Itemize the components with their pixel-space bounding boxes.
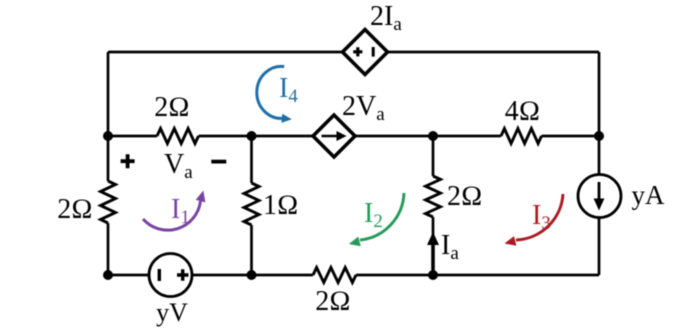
svg-text:Va: Va xyxy=(164,149,193,183)
wire top net from left corner to right corner xyxy=(108,51,599,54)
wire left vertical lower segment xyxy=(107,223,110,275)
svg-text:2Ω: 2Ω xyxy=(57,194,93,225)
wire right vertical upper segment xyxy=(598,52,601,174)
svg-text:Ia: Ia xyxy=(441,230,459,264)
mesh current I1 arc xyxy=(143,201,201,230)
current Ia arrow on wire xyxy=(431,245,435,270)
node C junction 2ohm-mid top xyxy=(428,131,438,141)
wire bottom net left segment xyxy=(108,274,313,277)
svg-text:2Ia: 2Ia xyxy=(370,1,402,35)
current source yA circle xyxy=(578,175,621,218)
wire bottom net right segment xyxy=(356,274,599,277)
svg-text:I1: I1 xyxy=(171,194,190,228)
wire 1ohm branch lower xyxy=(250,225,253,275)
resistor 2ohm left vertical xyxy=(101,181,116,223)
svg-text:4Ω: 4Ω xyxy=(505,96,541,127)
node D junction right-mid xyxy=(594,131,604,141)
wire middle horizontal segment to 4ohm xyxy=(199,135,502,138)
svg-text:yV: yV xyxy=(156,298,188,327)
wire 2ohm middle branch upper xyxy=(432,136,435,176)
voltage source yV plus xyxy=(177,269,189,280)
node F junction 1ohm bottom xyxy=(247,270,257,280)
wire middle horizontal net xyxy=(108,135,157,138)
svg-text:yA: yA xyxy=(632,180,666,210)
dependent source 2Va arrow xyxy=(322,135,339,138)
resistor 2ohm top-left horizontal xyxy=(157,129,199,144)
wire 2ohm middle branch lower xyxy=(432,217,435,275)
wire 1ohm branch upper xyxy=(250,136,253,183)
mesh current I4 arc xyxy=(257,66,284,118)
voltage source yV minus bar xyxy=(158,269,161,281)
dependent source 2Ia minus bar xyxy=(372,47,375,57)
svg-text:I2: I2 xyxy=(364,198,383,232)
wire right vertical lower segment xyxy=(598,218,601,275)
node G junction Ia bottom xyxy=(428,270,438,280)
label minus of Va xyxy=(211,160,226,164)
svg-text:2Ω: 2Ω xyxy=(154,92,190,123)
svg-text:1Ω: 1Ω xyxy=(263,190,299,221)
mesh current I3 arc xyxy=(516,194,563,240)
svg-text:2Ω: 2Ω xyxy=(447,181,483,212)
resistor 1ohm xyxy=(244,183,259,225)
node A junction left-mid xyxy=(103,131,113,141)
node E junction left-bottom xyxy=(103,270,113,280)
svg-text:I3: I3 xyxy=(532,200,551,234)
resistor 4ohm xyxy=(501,129,542,144)
resistor 2ohm bottom xyxy=(313,268,356,283)
dependent source 2Va diamond xyxy=(313,115,355,157)
node B junction 1ohm top xyxy=(247,131,257,141)
svg-text:2Ω: 2Ω xyxy=(315,286,351,317)
svg-text:2Va: 2Va xyxy=(342,91,385,125)
svg-text:I4: I4 xyxy=(279,73,298,107)
voltage source yV circle xyxy=(149,254,192,297)
dependent source 2Ia plus xyxy=(353,47,362,56)
mesh current I2 arc xyxy=(360,193,404,240)
resistor 2ohm middle vertical xyxy=(426,176,441,217)
dependent source 2Ia diamond xyxy=(343,30,388,75)
wire left vertical upper segment xyxy=(107,52,110,181)
wire middle horizontal right segment xyxy=(542,135,600,138)
label plus of Va xyxy=(121,154,135,168)
current source yA arrow xyxy=(598,182,601,201)
